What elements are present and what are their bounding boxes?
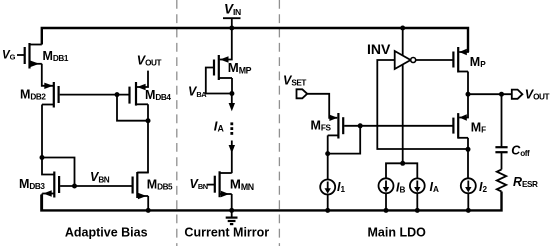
svg-text:Current Mirror: Current Mirror [184, 226, 269, 240]
top VIN supply rail [42, 28, 468, 52]
wire VOUT to MDB4 source [137, 71, 148, 87]
node VG input label [2, 50, 16, 62]
current direction arrow IA lower [229, 141, 235, 174]
junction IA on rail [415, 208, 420, 213]
wire MMP gate diode loop to VBA [206, 68, 230, 94]
junction top rail to bias line [400, 26, 405, 31]
transistor MP [453, 47, 486, 73]
transistor MMN [215, 171, 254, 197]
current source IB [379, 178, 406, 194]
wire MDB3 source to ground rail [41, 194, 43, 211]
transistor MDB4 [130, 82, 172, 106]
junction IB on rail [384, 208, 389, 213]
junction load branch [499, 92, 504, 97]
wire node to MDB3 drain [42, 158, 54, 175]
wire MDB1 source to MDB2 source [42, 64, 53, 86]
svg-text:Adaptive Bias: Adaptive Bias [65, 226, 148, 240]
wire MDB5 source to ground rail [147, 196, 149, 210]
wire node to VBN gate line [42, 158, 75, 187]
wire MF drain to node B [467, 138, 469, 149]
wire MMN gate lead [207, 184, 215, 186]
gate INV inverter [395, 51, 416, 69]
wire VOUT load branch down [501, 94, 503, 147]
wire VG to MDB1 gate [17, 54, 25, 56]
transistor MMP [214, 55, 252, 80]
junction I2 on rail [466, 208, 471, 213]
junction VBN node [72, 184, 77, 189]
wire bias line from top rail to IB IA bridge [402, 28, 404, 163]
node VSET terminal [283, 74, 307, 99]
junction VOUT node [466, 92, 471, 97]
junction MDB2 drain node [40, 155, 45, 160]
label INV [367, 41, 391, 57]
wire MDB2/MDB4 shared gate line [60, 94, 130, 96]
wire INV input sense line [377, 60, 468, 149]
wire MDB2 drain down [41, 105, 43, 158]
wire MFS drain down [327, 135, 329, 153]
wire I1 to rail [327, 195, 329, 211]
current source IA [410, 178, 439, 194]
wire VIN rail to MMP source [220, 28, 232, 60]
junction gate line tap [115, 92, 120, 97]
wire MMP drain down [231, 78, 233, 94]
junction VIN on rail [229, 26, 234, 31]
junction gate line tap [358, 123, 363, 128]
junction MFS drain node [325, 151, 330, 156]
junction I1 on rail [325, 208, 330, 213]
junction MMN source on rail [229, 208, 234, 213]
wire MFS/MF shared gate line [344, 125, 453, 127]
wire INV output to MP gate [416, 59, 454, 61]
junction node B [466, 147, 471, 152]
junction MMP drain node [229, 91, 234, 96]
junction IB IA bridge tap [400, 161, 405, 166]
wire I2 to rail [467, 193, 469, 210]
node VOUT terminal [512, 87, 550, 101]
transistor MDB5 [133, 172, 173, 199]
node VBA label [188, 85, 207, 99]
label Adaptive Bias [65, 226, 148, 240]
wire VSET to MFS source [307, 94, 337, 118]
wire MMN source to rail [231, 194, 233, 210]
wire VOUT node to terminal [468, 93, 512, 95]
wire VIN rail to MP source [459, 28, 468, 52]
current source I1 [320, 180, 345, 195]
wire node B to I2 [467, 149, 469, 178]
label Current Mirror [184, 226, 269, 240]
node VIN terminal [223, 2, 241, 28]
transistor MDB2 [20, 82, 59, 108]
wire MDB3/MDB5 shared gate line VBN [60, 185, 133, 187]
bottom ground rail [41, 192, 501, 211]
ground symbol [226, 210, 238, 224]
node VBN label current mirror [190, 177, 208, 191]
wire IA to rail [416, 193, 418, 210]
label IA current mirror [214, 118, 225, 133]
resistor RESR [497, 170, 538, 192]
separator dashed line between Adaptive Bias and Current Mirror [176, 0, 178, 246]
junction MDB5 source on rail [146, 208, 151, 213]
wire bridge to IB and IA [386, 163, 417, 178]
separator dashed line between Current Mirror and Main LDO [278, 0, 280, 246]
current source I2 [461, 178, 488, 194]
node VBN label [90, 170, 110, 184]
current direction arrow IA upper [229, 94, 235, 112]
label Main LDO [368, 226, 427, 240]
wire MP drain to VOUT node [467, 72, 469, 95]
wire MFS diode connection to gate line [328, 126, 361, 154]
wire MFS drain to I1 [327, 154, 329, 180]
wire MDB4 drain to MDB5 drain [137, 104, 148, 172]
node VOUT label adaptive bias [137, 54, 162, 68]
wire MDB4 diode connection [117, 95, 148, 121]
svg-text:Main LDO: Main LDO [368, 226, 427, 240]
wire IB to rail [385, 193, 387, 210]
wire VOUT node to MF source [459, 94, 468, 117]
dotted continuation IA [230, 122, 233, 134]
transistor MF [453, 113, 486, 139]
capacitor Coff [495, 144, 530, 158]
wire Coff to RESR [501, 152, 503, 169]
transistor MDB3 [19, 172, 59, 198]
svg-text:INV: INV [367, 41, 391, 57]
transistor MFS [311, 113, 344, 139]
junction MDB4 drain [146, 118, 151, 123]
transistor MDB1 [25, 43, 69, 69]
